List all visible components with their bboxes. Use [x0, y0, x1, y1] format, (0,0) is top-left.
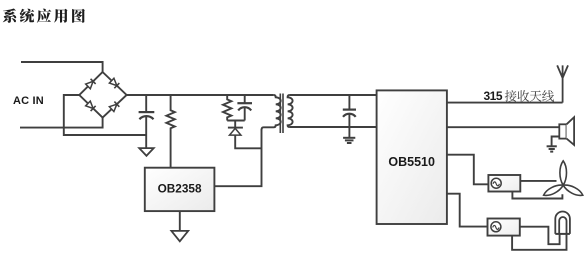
wire U1 drain to transformer [214, 129, 261, 186]
svg-text:AC IN: AC IN [13, 95, 44, 107]
transformer T1 primary [262, 95, 281, 130]
wire motor2 pin [447, 194, 488, 227]
diode D1 [85, 79, 95, 89]
motor M2 [488, 219, 520, 236]
wire secondary top [290, 94, 377, 96]
wire AC line bottom [20, 118, 103, 128]
capacitor C1 [139, 95, 155, 148]
wire motor2 bottom to element [512, 234, 566, 250]
speaker LS1 [559, 117, 574, 145]
IC U2 OB5510 [377, 90, 447, 224]
earth ground (speaker) [547, 146, 557, 151]
wire speaker pin [447, 126, 559, 128]
wire motor2 to element [520, 227, 560, 245]
wire AC line top [21, 62, 103, 72]
svg-text:OB2358: OB2358 [158, 182, 202, 196]
diode D5 [228, 128, 262, 149]
atomizer U-element [555, 212, 570, 234]
svg-text:315: 315 [484, 89, 503, 103]
diode D3 [85, 101, 95, 111]
ground (C1) [139, 148, 154, 156]
wire motor1 pin [447, 155, 489, 185]
resistor R1 [166, 95, 174, 168]
transformer T1 core [280, 94, 283, 134]
ground (U1) [171, 231, 188, 241]
wire bridge negative to ground rail [64, 95, 146, 135]
earth ground (C3) [343, 138, 355, 143]
capacitor C3 [343, 95, 356, 138]
wire DC+ rail [127, 94, 274, 96]
wire motor1 to fan [520, 180, 556, 182]
wire motor1 bottom to fan [512, 192, 562, 199]
label 接收天线 [505, 90, 554, 102]
motor M1 [488, 175, 520, 192]
title 系统应用图 [3, 9, 85, 23]
diode D4 [109, 102, 119, 112]
transformer T1 secondary [288, 95, 293, 127]
snubber resistor R2 [223, 95, 231, 121]
IC U1 OB2358 [145, 168, 215, 211]
diode D2 [109, 78, 119, 88]
wire U1 ground pin [179, 211, 181, 231]
antenna [557, 65, 568, 102]
wire snubber bottom bar [227, 121, 245, 128]
wire speaker to ground [552, 137, 560, 146]
wire secondary bottom [290, 126, 377, 128]
svg-text:OB5510: OB5510 [388, 155, 435, 169]
wire antenna pin [447, 102, 563, 104]
fan blades [542, 161, 584, 198]
bridge rectifier ring [79, 72, 126, 118]
snubber capacitor C2 [237, 95, 252, 121]
